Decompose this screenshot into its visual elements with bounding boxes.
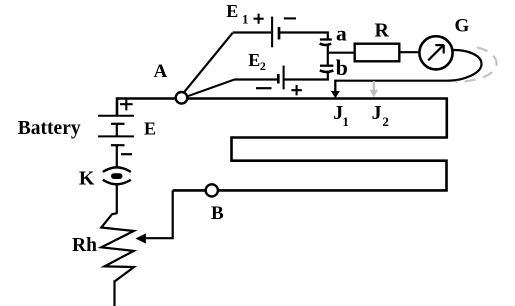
node A	[176, 92, 188, 104]
key K bottom arc	[103, 180, 131, 185]
svg-text:E: E	[248, 50, 260, 70]
wire: E1 left lead	[233, 31, 271, 33]
ghost loop (alternate jockey position, dashed)	[456, 48, 497, 82]
contact b cup	[320, 70, 334, 72]
svg-text:G: G	[455, 16, 470, 37]
E2 plus sign	[291, 85, 302, 95]
wire: a-b junction to resistor R	[328, 52, 355, 54]
battery plus sign	[120, 98, 133, 110]
E1 plus sign	[254, 14, 264, 24]
wire: E1 diagonal from A	[184, 33, 233, 93]
wire: E1 right lead to contact a	[279, 33, 328, 39]
wire: seg4 end down to rheostat wiper	[146, 190, 173, 238]
wire: contact a to contact b	[327, 45, 329, 65]
galvanometer needle	[428, 45, 444, 61]
svg-text:1: 1	[242, 12, 249, 27]
battery E long plate 1	[98, 115, 134, 117]
svg-text:A: A	[154, 61, 168, 82]
key K top arc	[103, 167, 131, 172]
battery E short plate 2	[111, 144, 125, 146]
svg-text:a: a	[336, 21, 347, 45]
battery E short plate 1	[111, 123, 125, 125]
wire: battery top corner to A and main potentiometer serpentine wire	[117, 99, 447, 191]
E1 minus sign	[284, 17, 296, 19]
rheostat Rh zigzag	[101, 213, 134, 306]
node B	[206, 184, 218, 196]
svg-text:1: 1	[342, 114, 349, 129]
jockey J2 ghost arrow	[373, 81, 375, 91]
wire: E2 right lead to b junction	[284, 78, 329, 80]
contact a cup	[320, 44, 332, 45]
cell E2 long plate	[283, 66, 285, 90]
wire: E2 left lead	[235, 78, 278, 80]
contact a top bar	[320, 38, 332, 40]
cell E2 short plate	[277, 74, 280, 84]
wire: galvanometer loop to jockey line	[335, 50, 481, 81]
key K contact dash	[111, 173, 123, 179]
svg-text:E: E	[144, 119, 156, 139]
resistor R box	[355, 44, 400, 62]
cell E1 short plate	[278, 27, 281, 40]
svg-text:R: R	[375, 20, 390, 42]
svg-text:Battery: Battery	[18, 118, 81, 139]
wire: contact b down to junction	[327, 72, 329, 80]
cell E1 long plate	[271, 17, 273, 48]
svg-text:b: b	[336, 55, 348, 80]
svg-text:B: B	[211, 203, 224, 224]
rheostat wiper arrowhead	[135, 233, 146, 243]
svg-text:J: J	[372, 102, 382, 124]
wire: E2 diagonal from A	[187, 80, 234, 97]
contact b top bar	[320, 65, 333, 67]
jockey J1 arrow	[334, 80, 336, 92]
svg-text:Rh: Rh	[72, 235, 97, 256]
svg-text:2: 2	[260, 59, 266, 73]
wire: key K to rheostat	[116, 184, 118, 213]
battery E long plate 2	[98, 135, 134, 137]
galvanometer G circle	[419, 36, 452, 69]
wire: R to galvanometer	[399, 51, 419, 53]
wire: battery to key K	[116, 145, 118, 167]
svg-text:E: E	[226, 1, 238, 21]
E2 minus sign	[256, 87, 272, 89]
svg-text:K: K	[79, 168, 95, 190]
svg-text:2: 2	[382, 114, 389, 129]
wire: between battery cells	[116, 124, 118, 137]
battery minus sign	[121, 153, 132, 155]
